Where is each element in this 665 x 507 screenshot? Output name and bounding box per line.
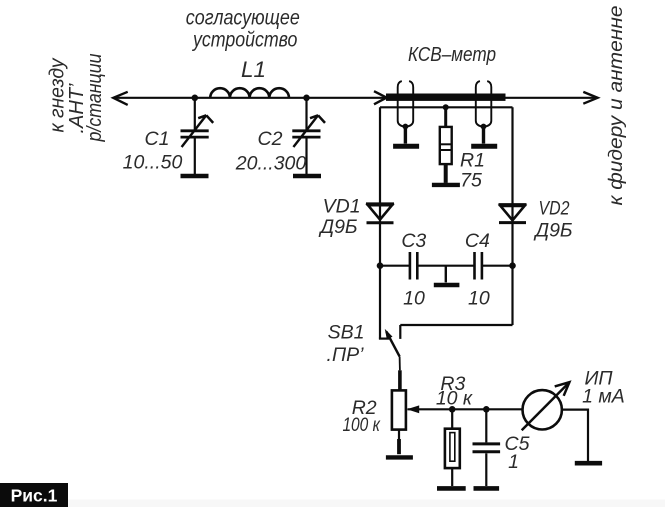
node dot left (VD1/C3) [377,262,384,269]
ground (R3) [437,486,466,491]
capacitor C4 [475,252,513,280]
svg-text:L1: L1 [241,57,266,82]
svg-text:SB1: SB1 [328,321,365,343]
svg-text:C4: C4 [465,230,490,252]
svg-text:10: 10 [403,288,425,310]
coupling loop 2 [476,81,492,144]
svg-text:согласующее: согласующее [186,7,300,30]
meter IP (1 mA) [522,382,570,430]
svg-text:к фидеру и антенне: к фидеру и антенне [605,5,627,205]
node junction dot right (L1/C2) [303,95,310,102]
resistor R3 [445,409,460,486]
ground (loop 1) [393,144,419,149]
figure caption Ris.1 [0,483,68,507]
svg-text:Д9Б: Д9Б [533,220,573,242]
wire switch right contact drop [399,325,401,339]
wire meter to ground corner [562,409,588,462]
switch SB1 [385,329,400,391]
wire main antenna line [114,97,386,99]
svg-text:10...50: 10...50 [123,152,183,174]
wire SWR box top [380,106,513,108]
diode VD1 [366,204,394,266]
svg-text:100 к: 100 к [342,414,380,436]
svg-text:10: 10 [468,288,490,310]
node R1 tap dot [443,104,449,110]
resistor R1 [440,107,452,183]
ground (C1) [181,174,209,179]
wire switch left contact nub [379,338,389,340]
wire switch upper horizontal [400,324,512,326]
svg-text:10 к: 10 к [436,388,473,410]
label: left vertical (to ANT jack of radio) [47,54,107,143]
svg-text:R1: R1 [460,150,485,172]
node dot right (VD2/C4) [509,262,516,269]
node dot (C5 tap) [483,406,490,413]
svg-text:C1: C1 [145,128,170,150]
ground (C2) [293,174,321,179]
svg-text:.ПР’: .ПР’ [327,344,365,366]
wire main line right of SWR bar [505,97,596,99]
svg-text:Рис.1: Рис.1 [11,486,58,506]
svg-text:75: 75 [460,169,482,191]
diode VD2 [499,205,527,266]
ground (R2) [386,455,413,459]
capacitor C1 (variable) [181,98,214,174]
capacitor C2 (variable) [292,98,325,174]
wire wiper to meter [408,408,523,410]
coupling loop 1 [398,81,414,144]
arrowhead mid (into bar) [374,91,387,104]
svg-text:C2: C2 [258,128,283,150]
inductor L1 [210,88,289,98]
node junction dot left (L1/C1) [192,95,199,102]
svg-text:VD2: VD2 [539,198,570,220]
ground (meter) [575,461,602,466]
wire SWR box left side [379,107,381,203]
svg-text:C3: C3 [401,230,426,252]
svg-text:1 мА: 1 мА [582,386,625,408]
ground (R1) [432,183,460,187]
svg-text:р/станции: р/станции [84,54,106,143]
svg-text:устройство: устройство [191,29,297,52]
wire SWR box right side [511,107,513,203]
svg-text:1: 1 [508,451,519,473]
svg-text:КСВ–метр: КСВ–метр [408,43,496,66]
potentiometer R2 [392,390,419,454]
ground (loop 2) [471,144,497,149]
capacitor C5 [473,409,501,486]
SWR meter strip line (thick bar) [386,94,506,101]
node dot (R3 tap) [449,406,456,413]
wire left branch down to switch contact [379,266,381,339]
svg-text:Д9Б: Д9Б [318,216,358,238]
ground (C5) [474,486,500,491]
ground (between C3/C4) [434,266,460,285]
arrowhead right (to feeder) [583,92,597,104]
svg-text:20...300: 20...300 [235,153,307,175]
svg-text:VD1: VD1 [323,196,361,218]
capacitor C3 [380,252,474,280]
arrowhead left (to radio) [113,92,127,105]
wire right branch down [511,266,513,325]
